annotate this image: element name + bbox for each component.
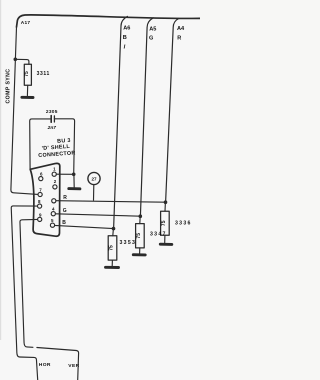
ground (below R3311) — [22, 96, 33, 99]
wire VER (pin9 to bottom edge) — [20, 219, 38, 347]
svg-text:27: 27 — [91, 177, 97, 182]
test point 27 circle — [88, 172, 100, 184]
wire pin1 to ground node — [56, 173, 73, 175]
board edge border A17 — [17, 15, 200, 27]
scan edge artifact — [0, 0, 1, 340]
wire COMP SYNC (net from A17 down to pin 7) — [11, 27, 38, 194]
capacitor 2305 plates — [50, 116, 52, 123]
pin 4 — [51, 212, 55, 216]
svg-text:A17: A17 — [21, 20, 31, 26]
pin 6 — [39, 177, 43, 181]
pin 3 — [52, 199, 56, 203]
svg-text:75: 75 — [109, 245, 115, 251]
svg-text:3336: 3336 — [175, 221, 192, 227]
node B junction — [112, 227, 116, 231]
wire stub A6 (B input) — [114, 16, 128, 228]
pin 5 — [50, 223, 54, 227]
svg-text:R: R — [177, 36, 181, 42]
resistor 3347 lead — [139, 216, 141, 223]
ground (below R3336) — [160, 243, 172, 246]
svg-text:G: G — [149, 36, 153, 42]
resistor 3353 body (75 ohm) — [108, 236, 117, 260]
svg-text:75: 75 — [24, 71, 30, 77]
ground (below R3347) — [133, 253, 145, 256]
svg-text:A4: A4 — [177, 26, 185, 32]
resistor 3311 (75 ohm) stub wire — [15, 59, 29, 64]
svg-text:2305: 2305 — [46, 109, 58, 115]
pin 8 — [38, 204, 42, 208]
resistor 3336 lead — [164, 202, 166, 211]
pin 9 — [38, 217, 42, 221]
svg-text:B: B — [62, 220, 66, 226]
svg-text:A5: A5 — [149, 27, 156, 33]
svg-text:B: B — [123, 35, 127, 41]
resistor 3311 lead — [26, 85, 28, 95]
wire G (pin4 to node) — [55, 214, 140, 216]
wire capacitor loop left (shell to cap) — [30, 119, 51, 169]
wire ground lead — [73, 174, 75, 187]
svg-text:A6: A6 — [123, 26, 130, 32]
svg-text:3347: 3347 — [150, 232, 167, 238]
test point 27 stem — [93, 185, 95, 201]
resistor 3311 body — [24, 64, 31, 85]
resistor 3353 lower lead — [111, 260, 113, 266]
svg-text:R: R — [63, 195, 67, 201]
resistor 3347 body (75 ohm) — [136, 224, 145, 248]
resistor 3347 lower lead — [139, 248, 141, 254]
wire stub A4 (R input) — [166, 18, 179, 202]
node junction COMP SYNC / R3311 — [14, 58, 18, 62]
resistor 3336 lower lead — [164, 235, 166, 242]
node pin1/cap junction — [72, 173, 76, 177]
svg-text:G: G — [63, 208, 67, 214]
pin 7 — [38, 192, 42, 196]
resistor 3336 body (75 ohm) — [161, 211, 170, 235]
svg-text:75: 75 — [136, 233, 142, 239]
svg-text:2n7: 2n7 — [47, 125, 57, 131]
svg-text:3311: 3311 — [37, 71, 50, 77]
svg-text:COMP SYNC: COMP SYNC — [6, 69, 12, 104]
svg-text:75: 75 — [161, 220, 167, 226]
wire stub A5 (G input) — [140, 18, 153, 216]
wire B (pin5 to node) — [55, 225, 114, 228]
wire VER continued after gap — [37, 348, 79, 380]
svg-text:HOR: HOR — [39, 362, 51, 368]
wire R (pin3 to node) — [56, 201, 166, 203]
svg-text:3353: 3353 — [120, 240, 137, 246]
resistor 3353 lead — [112, 229, 115, 236]
node G junction — [139, 214, 143, 218]
pin 1 — [52, 172, 56, 176]
wire capacitor loop right (cap to pin1 node) — [54, 119, 74, 175]
ground (pin1 / shell) — [69, 187, 80, 190]
ground (below R3353) — [106, 266, 119, 269]
pin 2 — [53, 185, 57, 189]
wire HOR (pin8 to bottom edge) — [11, 206, 37, 380]
svg-text:VER: VER — [68, 363, 79, 369]
node R junction — [164, 200, 168, 204]
connector BU3 D-shell outline — [30, 163, 60, 236]
